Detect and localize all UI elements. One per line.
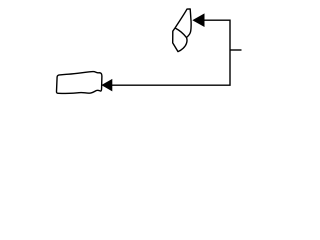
freehand blob bottom — [56, 72, 101, 94]
arrowhead bottom — [102, 80, 111, 91]
wire stub — [230, 49, 242, 51]
freehand shape top — [173, 9, 191, 52]
arrowhead top — [193, 14, 204, 26]
wire — [112, 20, 230, 85]
freehand fold line — [175, 28, 186, 37]
